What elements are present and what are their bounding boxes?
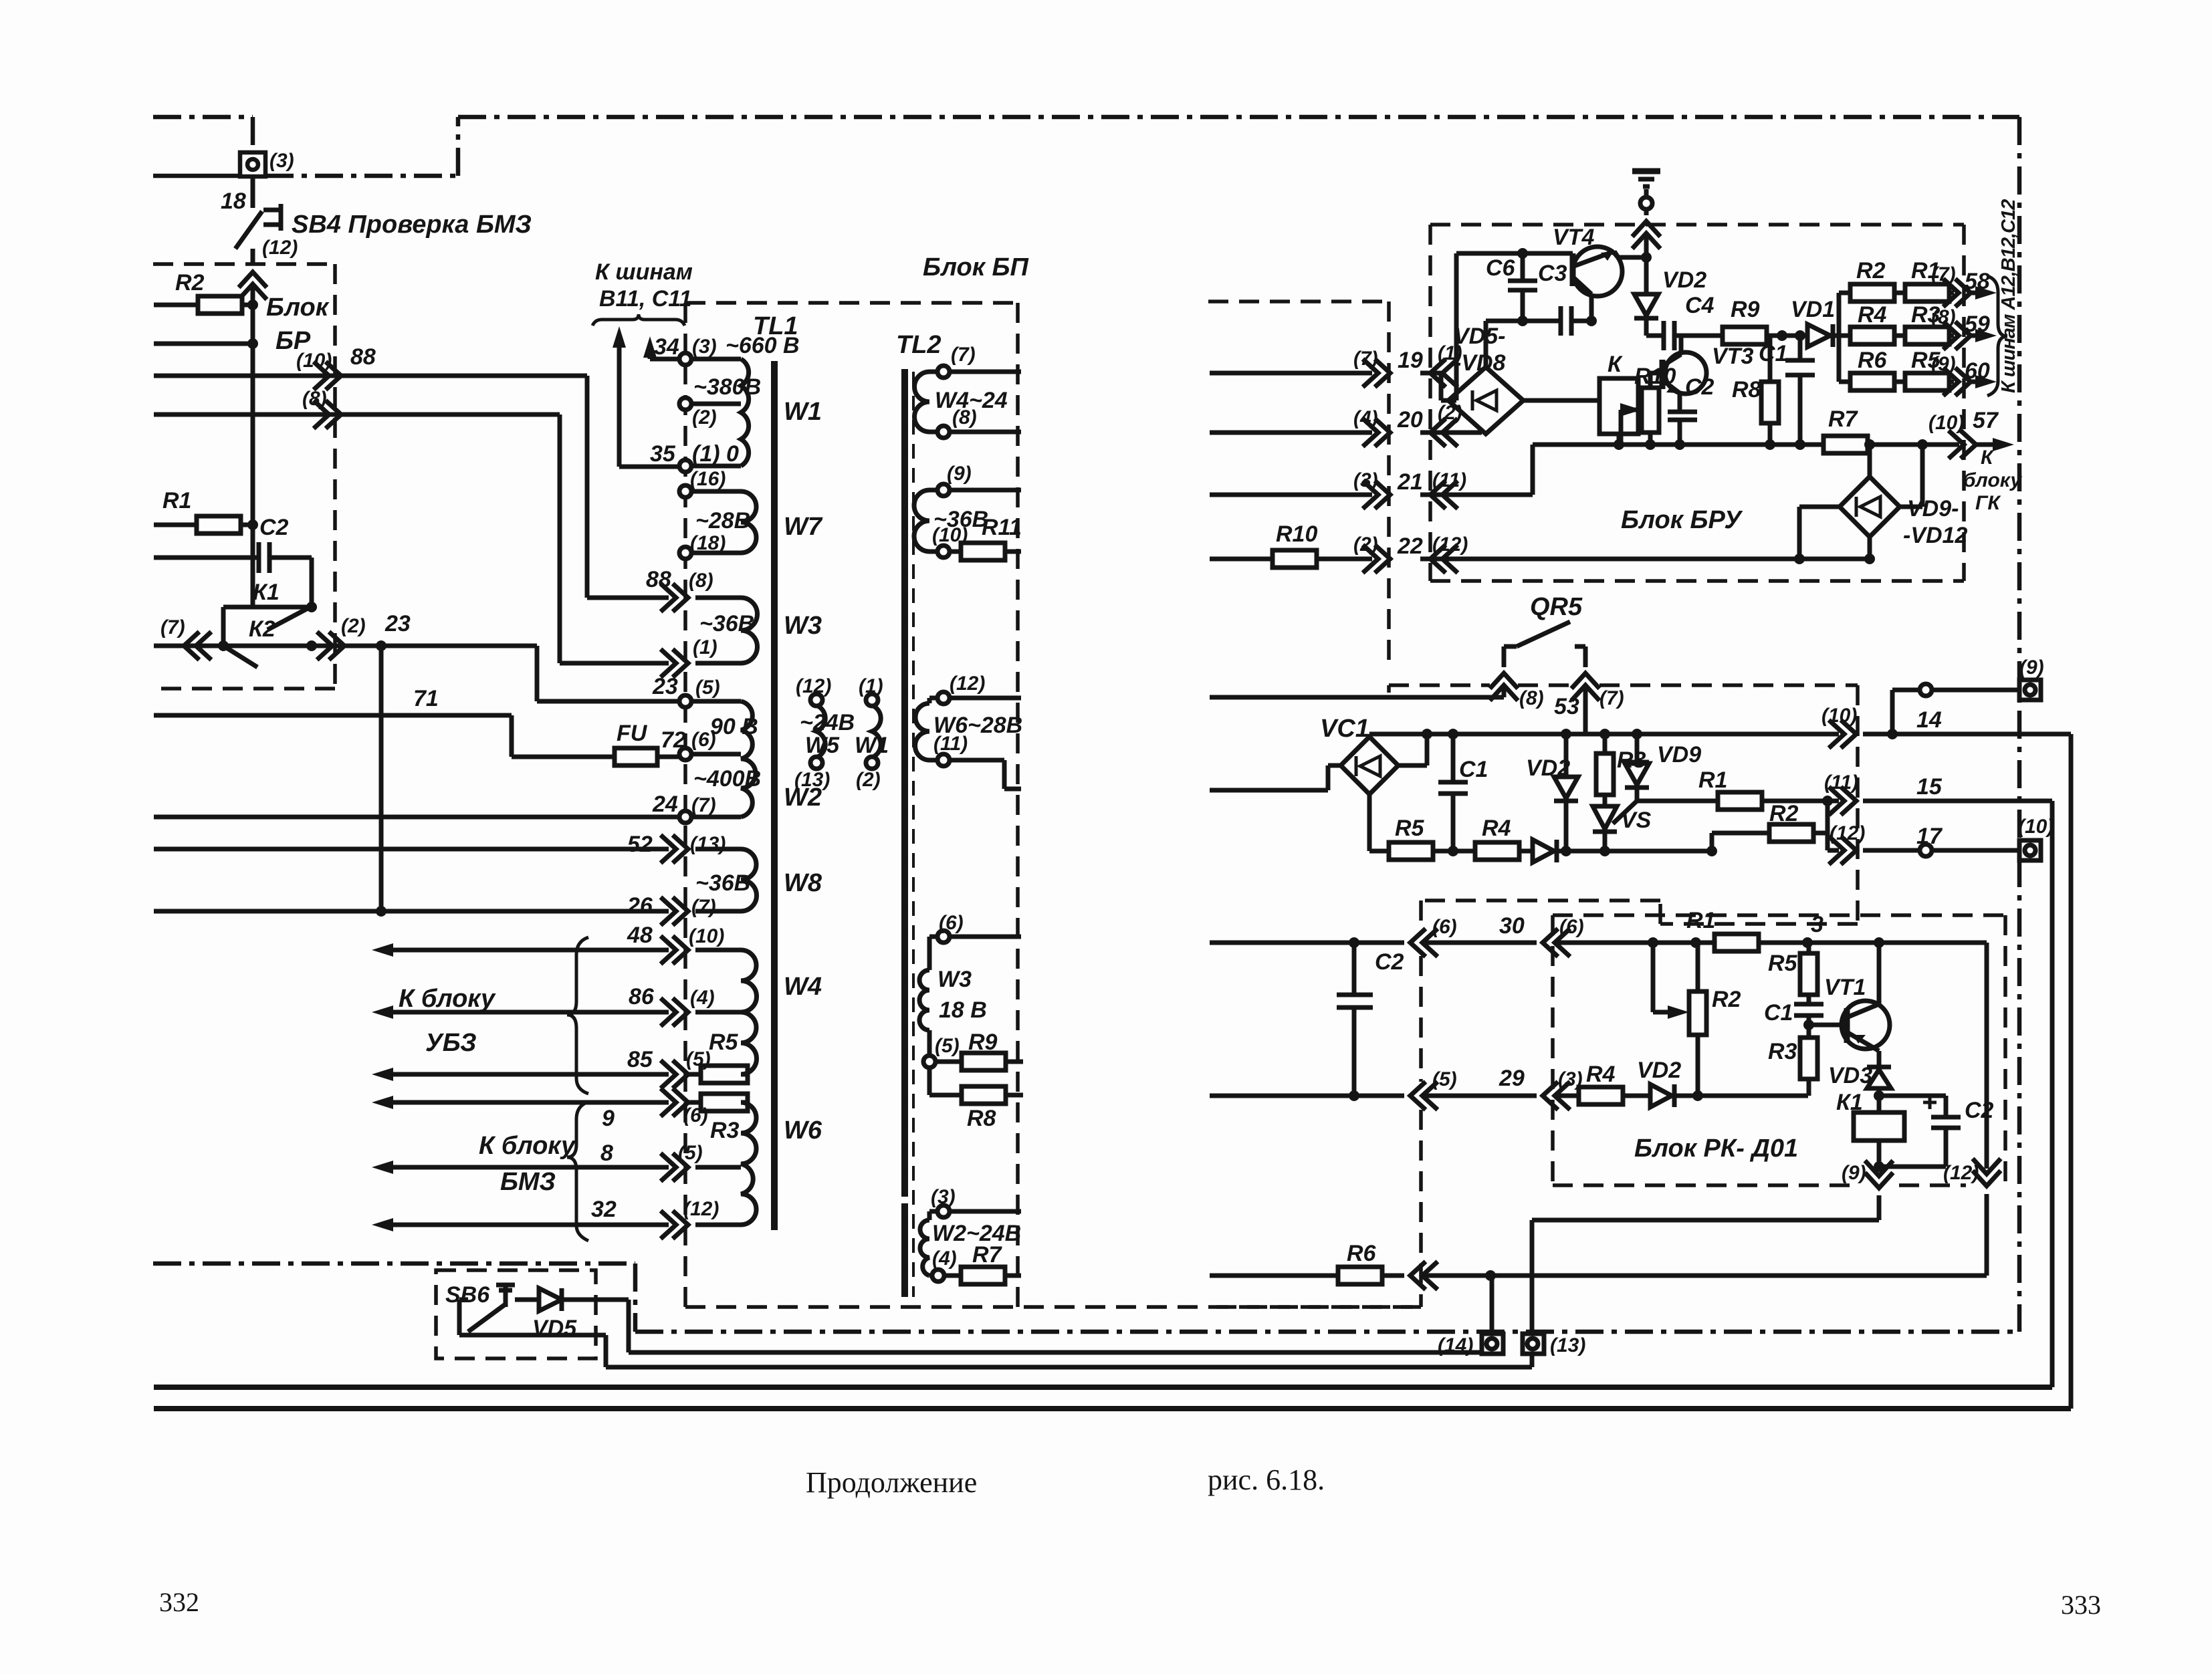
node 23 [376,640,386,651]
svg-text:(4): (4) [932,1247,957,1270]
VC1 connections [1369,734,1427,851]
SB6 dashed box [436,1270,596,1358]
svg-text:К1: К1 [253,580,280,605]
svg-text:C1: C1 [1764,1000,1793,1026]
diode VD3 [1867,1065,1891,1070]
svg-text:SB6: SB6 [445,1282,490,1308]
svg-text:R4: R4 [1586,1062,1616,1087]
svg-text:(9): (9) [2019,656,2044,679]
potentiometer R2 РК [1653,943,1698,1096]
svg-text:(7): (7) [1931,263,1956,285]
connector X1 square [240,152,265,176]
diode VD2 VC1 [1564,734,1569,775]
terminal (14) [1490,1276,1495,1334]
chevron ground entry [1632,221,1660,249]
transformer TL1 winding W2 [741,701,756,817]
svg-text:(8): (8) [1931,306,1956,328]
chevron (10) [314,362,341,390]
svg-text:R2: R2 [175,270,205,295]
resistor R1 VC1 row 15 [1637,801,2052,1387]
bridge VD9-12 connections [1799,445,1922,559]
svg-text:15: 15 [1916,774,1943,800]
svg-text:(12): (12) [683,1198,719,1220]
wire row 22 with R10 [1210,557,1870,562]
svg-text:R1: R1 [1686,908,1715,933]
wire 3 to chevron 12 [1985,943,1989,1276]
bridge VC1 [1341,737,1398,794]
wire 26 [154,909,669,914]
svg-text:(5): (5) [678,1142,703,1164]
svg-text:(4): (4) [690,987,715,1009]
thyristor VS [1603,795,1608,806]
capacitor C1 VC1 [1438,734,1468,851]
svg-text:VT4: VT4 [1553,225,1594,250]
terminal (9) [2019,680,2041,700]
svg-text:21: 21 [1397,469,1423,495]
wire 53 [1583,689,1588,734]
svg-text:SB4 Проверка БМЗ: SB4 Проверка БМЗ [292,211,532,239]
arrow row 9 to БМЗ [392,1100,669,1105]
svg-text:C2: C2 [1685,374,1715,400]
chevron (7) row26 [661,897,688,925]
svg-text:(1) 0: (1) 0 [692,441,739,467]
chevron (7) K2 [184,632,211,660]
node R2-bus [247,300,258,310]
chevron (1) row at TL1 [661,649,688,677]
svg-text:R2: R2 [1856,258,1886,283]
svg-text:Продолжение: Продолжение [806,1466,977,1499]
fuse FU [615,748,657,765]
svg-text:R2: R2 [1769,801,1799,826]
wire 24 [154,815,679,820]
svg-text:20: 20 [1397,407,1423,433]
svg-text:В11, С11: В11, С11 [599,286,692,312]
svg-text:(10): (10) [2018,816,2054,838]
arrow row 48 to УБЗ [392,948,669,953]
svg-text:(7): (7) [951,344,976,366]
svg-text:R8: R8 [1732,377,1761,402]
svg-text:(12): (12) [1943,1162,1979,1184]
winding W5 middle [816,705,825,757]
wire dash-dot bottom frame [153,1264,2019,1332]
svg-text:85: 85 [627,1047,653,1072]
svg-text:C6: C6 [1486,255,1516,281]
svg-text:VD2: VD2 [1637,1058,1681,1083]
resistor R3 VC1 [1603,734,1608,753]
capacitor C2 [154,542,312,573]
transformer TL1 winding W7 [741,491,756,553]
chevron (12) into БР [239,272,267,300]
terminal (10) [2019,840,2041,860]
resistors R4 R3 row 59 [1839,334,1981,338]
svg-text:(10): (10) [296,350,332,372]
svg-text:К блоку: К блоку [479,1132,576,1160]
svg-text:(3): (3) [1353,469,1378,491]
svg-text:C1: C1 [1759,341,1787,366]
svg-text:71: 71 [413,686,439,711]
svg-text:72: 72 [661,727,686,753]
diode VD2 РК [1650,1084,1672,1107]
diode VD1 [1807,324,1830,347]
arrow row 86 to УБЗ [392,1010,669,1015]
svg-text:(13): (13) [1550,1334,1585,1356]
svg-text:C2: C2 [259,515,289,540]
switch QR5 [1504,622,1585,646]
wire R6 row [1210,1274,1987,1278]
brace БМЗ [567,1102,588,1241]
winding W1 middle [872,705,881,757]
chevron (2) K2 out [317,632,344,660]
svg-text:TL2: TL2 [896,331,942,359]
svg-text:К шинам: К шинам [595,259,693,285]
svg-text:26: 26 [627,893,653,919]
resistor R5 РК [1807,943,1811,1004]
resistor R8 БП [929,1068,1023,1095]
resistor R2 [154,303,253,308]
svg-text:VD5: VD5 [532,1316,577,1341]
resistor R4 VC1 [1475,842,1519,860]
transformer TL1 winding W8 [741,849,756,911]
svg-text:VT3: VT3 [1712,344,1753,369]
svg-text:W4: W4 [784,973,822,1001]
rail 14 top [1369,734,2071,1409]
svg-text:К1: К1 [1836,1090,1863,1115]
resistor R3 РК [1800,1038,1817,1079]
svg-text:(8): (8) [302,388,327,410]
arrow row 85 to УБЗ [392,1072,669,1077]
diode VD4 VC1 [1533,840,1554,862]
resistor R1 [154,523,253,527]
svg-text:C1: C1 [1459,757,1488,782]
svg-text:R1: R1 [1698,767,1727,793]
bridge VD5-VD8 [1448,367,1523,434]
svg-text:14: 14 [1916,707,1942,733]
resistors R6 R5 row 60 [1839,380,1981,384]
relay K [1599,378,1638,434]
switch SB6 [459,1300,506,1332]
svg-text:VT1: VT1 [1824,975,1866,1000]
svg-text:(13): (13) [794,769,830,791]
svg-text:(2): (2) [856,769,881,791]
svg-text:(2): (2) [341,615,366,637]
wire 23 to TL1 (5) [312,646,679,701]
svg-text:(10): (10) [932,524,968,546]
svg-text:W3: W3 [784,612,822,640]
svg-text:48: 48 [627,923,653,948]
svg-text:(12): (12) [1432,533,1468,556]
svg-text:29: 29 [1499,1066,1525,1091]
transformer TL1 winding W1 [741,359,749,466]
wire top rail VT4 [1448,253,1573,400]
svg-text:(6): (6) [683,1104,708,1126]
svg-text:(12): (12) [950,673,985,695]
resistor R7 БП [944,1274,1021,1278]
svg-text:УБЗ: УБЗ [425,1029,477,1057]
node (5) TL2 [923,1056,935,1068]
resistor R5 TL1 [689,1072,701,1077]
brace К шинам А12 [1987,276,2007,396]
svg-text:58: 58 [1965,269,1990,294]
svg-text:R4: R4 [1858,302,1887,328]
svg-text:R5: R5 [1395,816,1425,841]
svg-text:C3: C3 [1538,261,1567,286]
svg-text:(12): (12) [262,237,298,259]
svg-text:(6): (6) [1559,916,1584,938]
diode VD2 БРУ [1634,294,1658,316]
arrows К шинам В11 С11 [619,348,678,467]
svg-text:88: 88 [350,344,376,370]
svg-text:(3): (3) [269,150,294,172]
svg-text:32: 32 [591,1197,617,1222]
arrow row 32 to БМЗ [392,1223,669,1227]
node row514 [247,338,258,349]
svg-text:90 В: 90 В [710,714,758,739]
svg-text:22: 22 [1397,533,1423,559]
svg-text:86: 86 [629,984,655,1009]
svg-text:34: 34 [654,334,679,360]
svg-text:К: К [1981,447,1995,469]
svg-text:(7): (7) [691,794,716,816]
svg-text:60: 60 [1965,358,1990,384]
svg-text:(4): (4) [1353,407,1378,429]
svg-text:(9): (9) [1842,1162,1866,1184]
svg-text:R11: R11 [982,515,1022,540]
svg-text:57: 57 [1973,408,1999,433]
svg-text:(11): (11) [1432,469,1466,491]
svg-text:~36В: ~36В [699,611,754,636]
svg-text:(16): (16) [690,468,726,490]
wire row 20 [1210,431,1482,435]
svg-text:ГК: ГК [1975,492,2001,514]
wire 71 [154,715,615,757]
resistor R9 БРУ [1723,327,1767,344]
capacitor C1 БРУ [1785,336,1815,445]
node 18 wire below connector X1 [251,176,255,208]
svg-text:W1: W1 [855,733,889,758]
svg-text:R10: R10 [1634,364,1676,389]
wire (8) from БР [154,414,669,663]
wire SB6 out top [562,1300,1492,1352]
svg-text:88: 88 [646,567,671,592]
svg-text:(6): (6) [939,912,964,934]
svg-text:59: 59 [1965,312,1990,337]
svg-text:(14): (14) [1438,1334,1473,1356]
transformer TL1 winding W6 [741,1102,756,1225]
relay K1 РК [1877,1096,1882,1167]
svg-text:К блоку: К блоку [399,985,496,1013]
svg-text:VD3: VD3 [1828,1063,1872,1088]
svg-text:(12): (12) [796,675,831,697]
wire top-left dash-dot boundary [153,117,253,152]
svg-text:VD2: VD2 [1662,267,1706,293]
svg-text:R5: R5 [709,1030,739,1055]
svg-text:(5): (5) [935,1035,960,1057]
svg-text:(18): (18) [690,532,726,554]
svg-text:(1): (1) [1438,342,1462,364]
svg-text:23: 23 [652,674,678,699]
svg-text:R7: R7 [1828,406,1859,432]
bus line 15 bottom [154,1385,2052,1390]
transformer TL1 winding W4 [741,950,756,1074]
svg-text:R3: R3 [1617,747,1646,773]
rail 59 feed with C4 [1646,321,1723,350]
capacitor C2 РК input [1337,943,1373,1096]
svg-text:VD2: VD2 [1526,755,1570,781]
right page outer dashed boundary meander [1208,302,1858,1307]
Блок РК-Д01 dashed box [1553,915,2005,1185]
wire SB6 out bottom [459,1300,1532,1367]
svg-text:332: 332 [159,1587,199,1617]
resistor R8 БРУ vertical [1768,336,1773,445]
svg-text:(6): (6) [691,729,716,751]
svg-text:(2): (2) [692,406,717,429]
wire SB4 to chevron (12) [251,249,255,265]
svg-text:К2: К2 [249,616,275,642]
R7 emitter rail [1533,443,1993,447]
wire 88 from БР (10) [154,376,669,598]
svg-text:(9): (9) [947,463,972,485]
wire (9) exit РК [1532,1167,1879,1334]
svg-text:(3): (3) [692,336,717,358]
node R1-bus [247,519,258,530]
svg-text:(1): (1) [859,675,883,697]
svg-text:QR5: QR5 [1530,593,1583,621]
svg-text:~660 В: ~660 В [726,333,800,358]
svg-text:52: 52 [627,832,653,857]
svg-text:(6): (6) [1432,916,1457,938]
svg-text:~400В: ~400В [693,766,761,792]
wire ground to VT4 node [1644,189,1649,197]
wire dash-dot right frame [2017,117,2022,1332]
TL2 winding W3 18В [919,970,929,1030]
chevron (13) [661,835,688,863]
wire row into bus [154,342,253,346]
wire row 21 [1210,445,1533,495]
svg-text:(11): (11) [933,733,968,755]
svg-text:R3: R3 [710,1118,740,1143]
svg-text:(8): (8) [689,570,713,592]
potentiometer R10 БРУ [1642,388,1659,433]
terminal (13) [1523,1334,1544,1354]
svg-text:Блок: Блок [266,293,330,322]
svg-text:рис. 6.18.: рис. 6.18. [1208,1463,1325,1496]
svg-text:БМЗ: БМЗ [500,1168,556,1196]
svg-text:(8): (8) [1519,687,1544,709]
svg-text:VD9-: VD9- [1907,496,1959,521]
svg-text:C2: C2 [1965,1098,1994,1123]
rail VC1 bottom [1369,849,1712,854]
svg-text:18 В: 18 В [939,997,987,1023]
svg-text:333: 333 [2061,1590,2101,1620]
svg-text:(10): (10) [1928,412,1964,434]
svg-text:R9: R9 [968,1030,998,1055]
W5/W1 terminals [810,694,822,706]
TL2 winding W6~28В [915,703,930,760]
bus line 14 bottom [154,1406,2071,1411]
chevron (8) row88 at TL1 [661,584,688,612]
TL1 tap terminal circles [679,353,691,365]
svg-text:(5): (5) [686,1048,711,1070]
svg-text:24: 24 [652,792,678,817]
svg-text:W7: W7 [784,513,823,541]
svg-text:~36В: ~36В [695,870,750,896]
transformer TL2 core [901,369,908,1297]
relay contact K2 row [154,646,312,667]
svg-text:(12): (12) [1830,822,1865,844]
capacitor C3 rail [1486,306,1593,336]
resistors R2 R1 row 58 [1839,291,1981,295]
transistor VT3 [1665,352,1706,394]
TL2 winding W2~24В [920,1220,929,1276]
wire 17 [1828,848,2019,853]
wire node23 vertical [379,646,384,911]
wire VC1 left feed [1210,765,1341,790]
wire into connector X1 [153,174,240,178]
svg-text:23: 23 [384,611,411,636]
wire 30 [1210,941,1987,945]
wire to terminal (9) [1892,690,2019,734]
TL2 winding ~36В [914,490,929,552]
Блок БР dashed box [153,264,335,689]
svg-text:(7): (7) [691,896,716,918]
svg-text:(7): (7) [160,616,185,638]
svg-text:(13): (13) [690,833,726,855]
svg-text:R7: R7 [972,1242,1003,1268]
svg-text:W8: W8 [784,869,822,897]
svg-text:(11): (11) [1824,771,1858,794]
svg-text:R3: R3 [1768,1039,1797,1064]
svg-text:~24В: ~24В [800,710,855,735]
svg-text:VS: VS [1621,808,1652,833]
node bus R-network [1837,293,1842,382]
svg-text:R5: R5 [1768,951,1798,976]
diode VD5 SB6 [515,1298,539,1302]
svg-text:R6: R6 [1858,348,1888,373]
bridge VD9-VD12 [1840,477,1900,537]
wire C2 to K1 [310,558,314,607]
transistor VT4 [1573,247,1622,296]
resistor R4 РК [1579,1087,1623,1104]
resistor R6 [1338,1267,1382,1284]
svg-text:R6: R6 [1347,1241,1377,1266]
transformer TL1 core [771,361,778,1230]
arrow row 8 to БМЗ [392,1165,669,1170]
Блок БРУ dashed box [1430,225,1964,581]
svg-text:VD9: VD9 [1657,742,1701,767]
svg-text:~380В: ~380В [693,374,761,400]
svg-text:(2): (2) [1438,402,1462,424]
svg-text:Блок БП: Блок БП [923,253,1028,281]
svg-text:(7): (7) [1353,348,1378,370]
brace УБЗ [567,937,588,1094]
transistor VT1 [1842,1001,1890,1049]
capacitor C2 БРУ [1668,412,1697,445]
svg-text:9: 9 [602,1106,615,1131]
TL1 tap stubs [691,359,748,1225]
svg-text:VC1: VC1 [1320,715,1369,743]
svg-text:блоку: блоку [1963,469,2022,491]
svg-text:30: 30 [1499,913,1525,939]
wire БР vertical bus [251,287,255,607]
svg-text:~28В: ~28В [695,508,750,533]
TL2 core dashed line [912,372,915,1297]
svg-text:W5: W5 [805,733,840,758]
chevron (8) БР [314,400,341,429]
svg-text:(2): (2) [1353,533,1378,556]
TL2 winding W4~24 [915,372,930,432]
capacitor C2 РК polarized [1879,1096,1961,1167]
transformer TL1 winding W3 [741,598,758,663]
